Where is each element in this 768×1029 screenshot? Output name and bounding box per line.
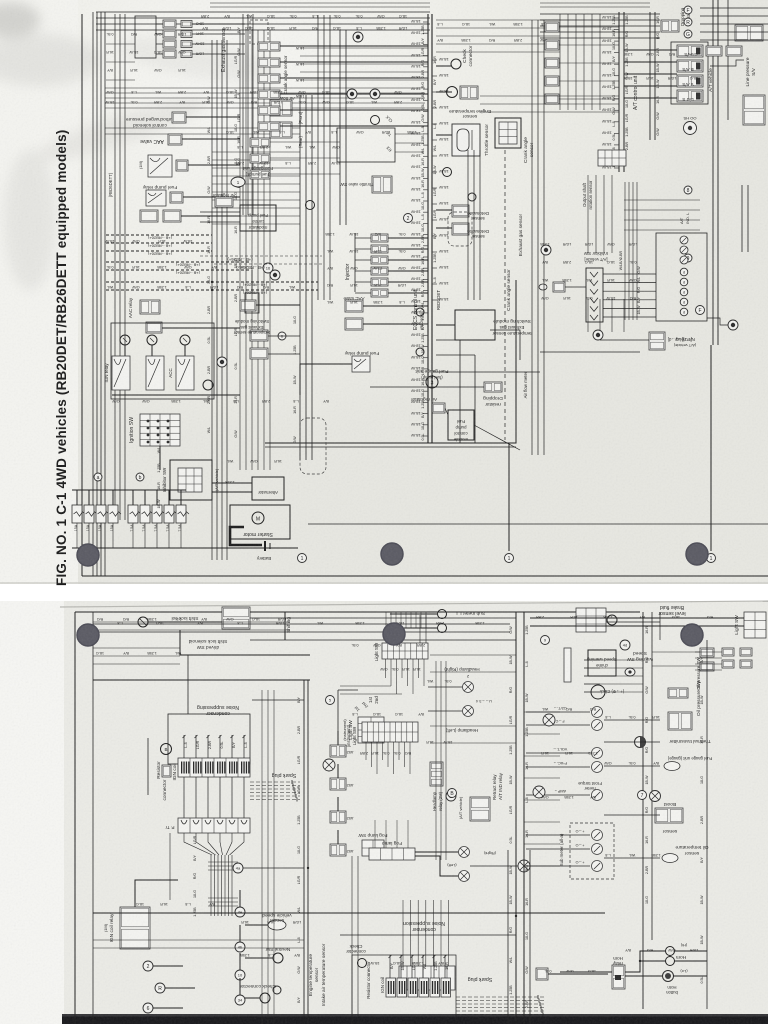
wire: fuse p2-2 xyxy=(337,764,339,778)
node: ref B p2 xyxy=(448,789,457,798)
wire: injector 6 feed xyxy=(355,292,371,294)
wire: injector 5 feed xyxy=(355,281,371,283)
sensor: engine temperature sensor circle xyxy=(447,87,458,98)
wire: gauge 3 in xyxy=(526,752,590,754)
wire: speed sensor xyxy=(245,924,268,926)
page2 horizontals upper left xyxy=(93,621,290,623)
junction: run 7 xyxy=(211,289,213,291)
sensor: throttle sensor xyxy=(452,124,480,156)
wire: page2 inner frame top xyxy=(93,679,310,681)
wire: shift lock feed xyxy=(148,621,222,623)
relay: fuel pump relay 2 xyxy=(352,356,370,372)
page 1 left margin (lighter) xyxy=(0,0,78,584)
connector: check connector circle xyxy=(451,59,461,69)
wires: serial link xyxy=(395,133,424,135)
connector: AT top row 4 xyxy=(545,76,559,86)
wire: ref 4a lead xyxy=(243,867,304,869)
wire: AAC valve xyxy=(182,138,240,140)
fuse A2 xyxy=(84,505,94,523)
meter: sub gauge low 1 xyxy=(592,830,603,841)
node: center ref 4e xyxy=(235,907,245,917)
strip: IGN coil row xyxy=(178,758,250,777)
wire: plug2 lead 3 xyxy=(456,1003,545,1005)
box: AAC valve 2 xyxy=(345,300,363,312)
wire: drop to node 1 (center) xyxy=(508,443,510,551)
fuse B2 xyxy=(140,505,150,523)
top right corner horizontals xyxy=(700,7,768,9)
horizontal harness y130 xyxy=(105,127,300,129)
connector: check connector 2b xyxy=(273,986,281,994)
switch: inhibitor contacts xyxy=(178,468,202,492)
wire: AT top row 5 xyxy=(559,98,619,100)
crank sensor vertical bundle xyxy=(467,150,469,300)
switch: Inhibitor SW block xyxy=(170,460,212,500)
wire: coil2 primary 1 xyxy=(389,955,391,978)
fuse box p2-4 xyxy=(330,844,346,856)
P-Tr socket arcs xyxy=(181,820,187,824)
meter: sub gauge 5 xyxy=(592,790,603,801)
connector: corner box a xyxy=(706,46,722,56)
lamps: A/T IND circles xyxy=(680,236,688,244)
bundle: output shaft wires xyxy=(624,182,626,320)
switch: Oil pressure SW xyxy=(668,712,692,730)
terminal box row 1a xyxy=(163,20,176,28)
node: AT IND 2 xyxy=(680,278,688,286)
wire: ignition SW down xyxy=(159,446,161,470)
frame: A/T IND lamp box xyxy=(656,233,707,321)
dark node H mid right xyxy=(593,330,603,340)
wire: fuel pump relay feed xyxy=(300,364,352,395)
wire: bracket to box 3 xyxy=(156,43,163,45)
connector: circled-X xyxy=(533,786,545,798)
node: ref 7 p2 xyxy=(638,791,647,800)
wire: converge 1 xyxy=(184,833,212,855)
box: aux relay xyxy=(146,322,162,333)
ECCS pin stubs right xyxy=(432,59,437,61)
page2 border verticals xyxy=(74,612,76,1024)
connector: D-4 box xyxy=(553,282,565,292)
wire: sub meter 2 xyxy=(390,627,437,629)
left harness verticals xyxy=(114,14,116,520)
wire: ign harness 2 xyxy=(214,855,216,916)
harness verticals x240-270 xyxy=(239,30,241,470)
node: A/T ref R xyxy=(684,18,692,26)
switch: Inhibitor SW (A/T vehicle) strip xyxy=(586,268,603,322)
wire: horn lo to bus xyxy=(674,960,707,962)
connector circle center 2 xyxy=(371,116,380,125)
scan grain overlay page1 xyxy=(0,0,768,584)
wire: B+3 drop xyxy=(184,345,186,356)
wire: to N/P relay xyxy=(600,339,649,341)
horizontal harness y150-230 left xyxy=(212,151,300,153)
wire: coil to PTr 2 xyxy=(195,777,197,818)
wire: injector 3 feed xyxy=(355,259,371,261)
wire: AT top row 2 xyxy=(559,44,619,46)
wire: fuse A4 top xyxy=(112,490,114,505)
node: page ref 1 center xyxy=(505,554,514,563)
connector: output shaft sensor grid xyxy=(598,150,626,166)
horizontal harness to sensors x436-540 xyxy=(436,19,560,21)
connector: circled-X right mid xyxy=(650,791,661,802)
switch: Neutral SW circle xyxy=(273,953,283,963)
wire: ign harness 7 xyxy=(231,855,233,916)
wire: ign harness 4 xyxy=(221,855,223,916)
wire: fuse A3 top xyxy=(100,490,102,505)
wire: plug lead 6 xyxy=(250,799,300,801)
headlamp/fog harness verticals xyxy=(435,661,437,860)
node: page2 ref 6 xyxy=(143,1003,153,1013)
relay: headlamp relay (2M) xyxy=(430,762,443,786)
wire: plug lead 2 xyxy=(250,785,300,787)
frame: relay group box xyxy=(111,323,214,399)
strip: power transistor row xyxy=(178,818,250,833)
connector circle B+2 xyxy=(147,335,157,345)
bracket: injector group xyxy=(354,233,356,292)
wire: injector 2 to ECCS xyxy=(388,248,428,250)
bottom dark page edge xyxy=(62,1014,768,1024)
terminal box row 3b xyxy=(181,41,192,48)
page1 very top horizontals xyxy=(210,2,430,4)
switch: Light SW (instrument) xyxy=(358,717,384,743)
wire: fuse A2 top xyxy=(88,490,90,505)
wire: converge 5 xyxy=(226,833,232,855)
page2 far right vertical xyxy=(706,640,708,1009)
box: air flow meter 2 xyxy=(270,122,292,138)
wire: page2 ref 6 lead xyxy=(153,1007,183,1009)
wire: plug2 lead 4 xyxy=(456,1007,545,1009)
wire: dashed run 6 xyxy=(106,281,318,283)
wires: instrument grid fanout down xyxy=(365,742,367,760)
switch: horn button (dark) xyxy=(663,971,674,982)
wire: dashed run 5 xyxy=(106,269,250,271)
box: air regulator (b1) xyxy=(215,197,233,207)
dark node Q mid right xyxy=(541,245,551,255)
wire: plug lead 1 xyxy=(250,781,300,783)
injector No.3 xyxy=(371,256,388,264)
wire: coil2 primary 4 xyxy=(422,955,424,978)
box: AAC relay xyxy=(140,300,160,314)
node: center ref 34 xyxy=(235,995,245,1005)
coil comb marks (dark) xyxy=(181,762,182,774)
page 2 left margin light xyxy=(0,601,64,1024)
wire: ign harness 3 xyxy=(217,855,219,916)
frame: ignition assembly 2 xyxy=(352,955,456,1024)
solenoid: V A/S xyxy=(677,75,703,87)
bus: A/T control unit xyxy=(618,12,620,172)
wire: fuse B4 top xyxy=(168,490,170,505)
wire: tail fuse b xyxy=(652,665,700,667)
ignition SW grid dots xyxy=(147,420,150,423)
horizontals sensor to A/T xyxy=(480,95,619,97)
wire: mid cluster a xyxy=(268,335,300,337)
node: battery feed 1 xyxy=(298,554,307,563)
wire: fuse A1 top xyxy=(76,490,78,505)
wire: horn button to bus xyxy=(673,975,707,977)
box: A/C relay contact xyxy=(176,160,188,171)
verticals x318-330 xyxy=(317,15,319,300)
box: switching module xyxy=(455,310,495,340)
node: center ref 4b xyxy=(235,942,245,952)
A/T bus second pair xyxy=(649,12,651,140)
box: VCM valve xyxy=(345,318,363,330)
node: A/T ref F xyxy=(684,6,692,14)
node: AT IND 4 xyxy=(680,298,688,306)
punch hole page2 center xyxy=(383,623,406,646)
wire: fuse B3 top xyxy=(156,490,158,505)
wire: injector 2 feed xyxy=(355,248,371,250)
page1 outer border left xyxy=(81,14,83,576)
wire: injector 4 feed xyxy=(355,270,371,272)
meter: sub gauge low 2 xyxy=(592,844,603,855)
wire: regulator to modulator xyxy=(445,408,448,415)
relay: IGN relay (1M) xyxy=(112,356,130,390)
boxes: air flow meter (top-left) xyxy=(270,100,292,116)
relay: A/C relay xyxy=(148,155,172,177)
connector circle center 3 xyxy=(306,201,315,210)
connector: circled-X A xyxy=(518,860,530,872)
injector No.4 xyxy=(371,267,388,275)
wire: page2 ref 2 lead xyxy=(153,965,183,967)
horizontal harness y88-108 xyxy=(105,87,425,89)
wire: dashed run 4 xyxy=(106,261,250,263)
wire: page2 ref R lead xyxy=(165,987,195,989)
page 2 sheet xyxy=(0,601,768,1024)
terminal box row 3a xyxy=(163,40,176,48)
wire: inhibitor row 5 xyxy=(603,307,656,309)
page 1 bottom edge shadow xyxy=(0,582,768,584)
wire: inhibitor row 4 xyxy=(603,299,656,301)
box: right top b xyxy=(722,660,734,668)
wire: fuse p2-4 xyxy=(337,830,339,844)
wire: coil2 primary 2 xyxy=(400,955,402,978)
bracket: exhaust harness group xyxy=(135,16,156,58)
sensor: detonation sensor 1 xyxy=(452,205,469,217)
wire: page2 long horizontal 1 xyxy=(93,912,605,914)
wire: page2 long horizontal 2 xyxy=(308,523,768,525)
box: engine temp sensor connector xyxy=(460,86,478,99)
wire: battery to node 1 xyxy=(272,547,298,549)
wire: mid row extra 1 xyxy=(270,141,340,143)
node: dark circle 16b xyxy=(217,357,227,367)
verticals near fog SW xyxy=(351,856,353,1024)
box: ps oil pressure SW xyxy=(240,300,256,311)
wire: fuel pump relay xyxy=(183,196,240,198)
dashed vertical frame x505 xyxy=(504,150,506,440)
box: right top c xyxy=(740,648,752,656)
wire: sensor to ECCS y92 xyxy=(436,91,452,93)
relay: ACC relay (1M) xyxy=(176,356,194,390)
injector No.6 xyxy=(371,289,388,297)
wire: ign assembly to center bus xyxy=(252,699,304,701)
wire: sensor to ECCS y135 xyxy=(436,134,452,136)
wire: coil to PTr 6 xyxy=(243,777,245,818)
misc connector circles page1 center xyxy=(443,168,452,177)
connector: Light SW grid (top) xyxy=(382,643,428,659)
junction: run 6 xyxy=(211,281,213,283)
wire: bracket to box 4 xyxy=(156,53,163,55)
wire: injector 1 feed xyxy=(355,237,371,239)
wire: row 1 to bus xyxy=(192,23,245,25)
injector No.1 xyxy=(371,234,388,242)
wire: switching module b1 up xyxy=(251,270,253,293)
wire: cluster bottom border xyxy=(540,351,640,353)
wire: module to ECCS xyxy=(436,324,455,326)
wire: air flow meter diagonal xyxy=(474,425,520,450)
terminal box row 2b xyxy=(181,31,192,38)
box: resistor (left col) xyxy=(140,210,158,222)
terminal box row 1b xyxy=(181,21,192,28)
wire: right bus to brake sensor xyxy=(659,612,661,640)
wire: plug2 lead 6 xyxy=(456,1014,545,1016)
switch: Light SW (instrument) grid xyxy=(362,722,418,742)
dark node F right xyxy=(728,320,738,330)
node: page2 ref 2 xyxy=(143,961,153,971)
connector: mid row extra 3 xyxy=(250,170,270,179)
wire: coil primary 2 xyxy=(195,735,197,758)
connector: corner box b xyxy=(726,46,742,56)
meter: sub gauge 4 xyxy=(592,762,603,773)
box: tail fuse b xyxy=(700,662,714,671)
wire: bottom rail xyxy=(72,547,298,549)
connector: mid row 2 xyxy=(258,58,280,67)
connector: shift lock circle xyxy=(138,617,148,627)
wire: coil primary 1 xyxy=(183,735,185,758)
box: fuel pump control modulator xyxy=(448,410,474,440)
box: mid cluster b xyxy=(250,348,268,359)
wire: converge 4 xyxy=(220,833,223,855)
wire: coil to PTr 5 xyxy=(231,777,233,818)
wire: fuse p2-3 xyxy=(337,797,339,811)
wire: small relay to horn relay xyxy=(548,973,608,975)
punch hole page2 left xyxy=(77,624,100,647)
connector: dark circle near relay xyxy=(446,791,456,801)
gap between pages xyxy=(0,584,768,601)
wire: center ref 4e drop xyxy=(239,890,241,907)
node: ref F2 xyxy=(696,306,705,315)
verticals x532-544 (sensor harness) xyxy=(531,20,533,455)
wire: AT top row 4 xyxy=(559,80,619,82)
wire: shift lock down xyxy=(180,630,310,655)
node: AT IND 1 xyxy=(680,268,688,276)
fuse drops to bottom rail xyxy=(76,523,78,548)
wire: D-4 to strip xyxy=(565,286,586,288)
junction dots page2 xyxy=(515,915,517,917)
wires: horn cluster xyxy=(625,951,665,972)
connector: fog lamp grid xyxy=(369,848,415,860)
wire: fuse B5 top xyxy=(180,490,182,505)
wire: plug lead 5 xyxy=(250,795,300,797)
top bus to A/T section xyxy=(540,13,660,15)
wire: relay row bottom xyxy=(112,394,240,396)
wires: light SW grid fanout down xyxy=(385,659,387,678)
wire: horn hi to bus xyxy=(674,950,707,952)
relay: fuel pump relay xyxy=(146,190,166,206)
lamp: headlamp left beam xyxy=(463,706,474,717)
wire: neutral SW xyxy=(245,957,273,959)
bus: page2 center-left pair xyxy=(303,680,305,1024)
fuse box p2-1 xyxy=(330,745,346,757)
node: center ref 10 xyxy=(235,970,245,980)
horn: Lo xyxy=(666,957,675,966)
extra dashed runs y254-265 xyxy=(200,255,322,257)
ECCS frame bottom second line xyxy=(265,446,516,448)
node: dark circle 19 xyxy=(270,270,280,280)
scan grain overlay page2 xyxy=(0,601,768,1024)
wire: plug lead 3 xyxy=(250,788,300,790)
wire: fuse B2 top xyxy=(144,490,146,505)
connector: mid row 4 xyxy=(258,90,280,99)
box: resistor xyxy=(162,765,171,777)
wire: gauge 4 in xyxy=(526,766,590,768)
connector: AT top row 1 xyxy=(545,22,559,32)
sensor: fuel gauge unit (gauge) xyxy=(664,762,680,771)
wire: plug2 lead 2 xyxy=(456,1000,545,1002)
wire: dashed run 7 xyxy=(106,289,318,291)
connector: circled-X xyxy=(543,714,555,726)
meter: speed warning SW xyxy=(625,668,635,676)
wire: alternator to bus 1 xyxy=(212,482,252,484)
terminal box row 4a xyxy=(163,50,176,58)
wire: fuse p2-1 xyxy=(337,731,339,745)
wires: shift lock to bus xyxy=(250,617,516,619)
wire: inhibitor row 6 xyxy=(603,316,656,318)
fuse A1 xyxy=(72,505,82,523)
node: ref 5 p2 xyxy=(326,696,335,705)
sensor: detonation sensor 2 xyxy=(452,223,469,235)
meter: sub gauge 1 xyxy=(592,707,603,718)
sensor: brake fluid circle xyxy=(607,615,617,625)
punch hole page1 right xyxy=(686,543,709,566)
wire: plug2 lead 1 xyxy=(456,996,545,998)
lamp: fog lamp left xyxy=(459,847,470,858)
wire: B+1 drop xyxy=(124,345,126,356)
page 1 sheet xyxy=(0,0,768,584)
bracket: resistor connector left xyxy=(147,738,149,795)
wire: relay to horn button xyxy=(625,975,662,977)
page1 top border bus xyxy=(96,11,430,13)
wires inhibitor grid down xyxy=(587,299,589,332)
wires: plug row 2 up xyxy=(402,900,404,966)
vertical pair far right x742-748 xyxy=(741,185,743,252)
connector: AT top row 5 xyxy=(545,94,559,104)
mid verticals x340-346 xyxy=(339,30,341,225)
verticals x560-600 top xyxy=(559,14,561,110)
wire: converge 3 xyxy=(208,833,219,855)
page2 top-left horizontals xyxy=(93,647,180,649)
wire: coil to PTr 4 xyxy=(219,777,221,818)
wire: page2 long horizontal 1b xyxy=(340,934,516,936)
wire: fuse column feed xyxy=(337,690,339,731)
wire: center ref 10 drop xyxy=(239,953,241,970)
connector: resistor connector circle xyxy=(161,744,172,755)
sensor: oil temperature sensor xyxy=(662,854,678,863)
connector: check connector 3 xyxy=(358,959,367,968)
node: fuse rail a xyxy=(94,473,102,481)
wire: coil primary 5 xyxy=(231,735,233,758)
solenoid: L/U S xyxy=(677,90,703,102)
meter: sub gauge 3 xyxy=(592,748,603,759)
wire: AAC valve 2 xyxy=(363,305,428,307)
fuse A3 xyxy=(96,505,106,523)
sensor: thermal transmitter circle (dark) xyxy=(635,737,646,748)
connector: dark circle S xyxy=(347,89,357,99)
fuse B5 xyxy=(176,505,186,523)
fuse box p2-2 xyxy=(330,778,346,790)
connector: check connector 2 xyxy=(260,993,270,1003)
bus: page2 right verticals xyxy=(642,612,644,1009)
wire: mid row 2 to ECCS xyxy=(280,61,428,63)
box: right top a xyxy=(722,648,734,656)
